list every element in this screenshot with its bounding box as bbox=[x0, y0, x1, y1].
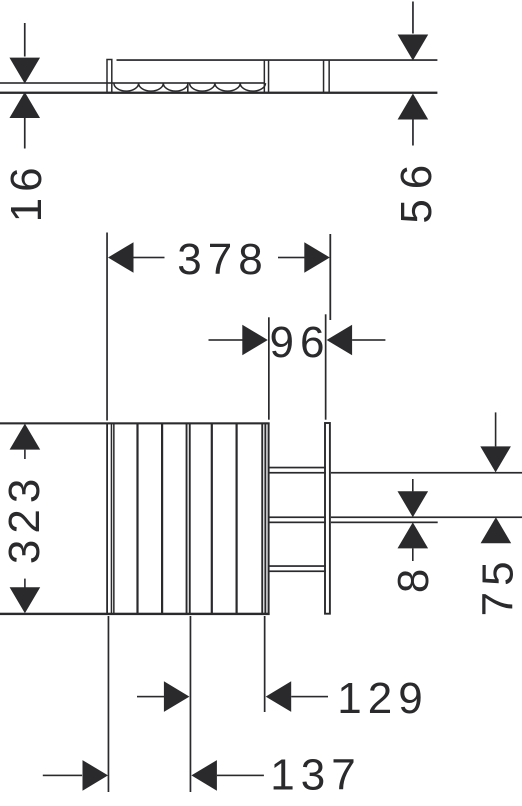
svg-text:137: 137 bbox=[270, 751, 361, 800]
top view: right bracket wall lines bbox=[323, 60, 325, 93]
dim 56 lower tail bbox=[412, 119, 414, 145]
dim 137 right arrow bbox=[191, 760, 217, 791]
front view: left edge bbox=[106, 423, 108, 615]
front view: top edge line bbox=[0, 422, 270, 424]
front view: wall bar line A bbox=[331, 472, 522, 474]
dim 75 up arrow bbox=[481, 517, 512, 543]
dim 129/137 extension line middle bbox=[190, 616, 192, 792]
dim 16 upper tail bbox=[24, 23, 26, 57]
front view: rail 1 lines bbox=[269, 467, 326, 469]
top view: inner support wall lines bbox=[264, 60, 266, 93]
dim 129 right arrow bbox=[266, 681, 292, 712]
dim 323 upper tail bbox=[24, 450, 26, 459]
front view: slat line 6 bbox=[236, 423, 238, 615]
dim 323 lower tail bbox=[24, 579, 26, 589]
dim 96 right extension line bbox=[325, 314, 327, 419]
dim 56 upper tail bbox=[412, 2, 414, 34]
dim 378 left extension line bbox=[106, 233, 108, 421]
dim 8 upper tail bbox=[412, 479, 414, 491]
dim 129 right tail bbox=[291, 696, 328, 698]
dim 129 left tail bbox=[137, 696, 164, 698]
dim 137 left tail bbox=[43, 775, 82, 777]
dim 16 lower tail bbox=[24, 118, 26, 149]
dim 56 down arrow bbox=[398, 35, 429, 61]
dim 8 up arrow bbox=[398, 522, 429, 548]
top view: left end bracket bbox=[107, 60, 112, 93]
front view: rail 2 lines bbox=[269, 516, 326, 518]
top view: center seam bbox=[187, 82, 189, 93]
svg-text:323: 323 bbox=[0, 473, 49, 564]
svg-text:56: 56 bbox=[392, 155, 441, 224]
top view: wall rail upper line bbox=[0, 82, 264, 84]
svg-text:75: 75 bbox=[474, 555, 522, 616]
front view: center slat pair bbox=[186, 423, 188, 615]
dim 96 left tail bbox=[209, 339, 243, 341]
dim 378 right arrow bbox=[304, 242, 330, 273]
dim 137 right tail bbox=[217, 775, 264, 777]
dim 129 left arrow bbox=[164, 681, 190, 712]
svg-text:96: 96 bbox=[270, 318, 331, 367]
dim 129/137 extension line left bbox=[108, 616, 110, 792]
dim 378 left tail bbox=[133, 257, 165, 259]
svg-text:378: 378 bbox=[177, 235, 268, 284]
dim 96 right tail bbox=[352, 339, 385, 341]
top view: shelf front edge line bbox=[117, 59, 438, 61]
dim 129 extension line right bbox=[264, 616, 266, 712]
dim 96 left arrow bbox=[242, 325, 267, 356]
front view: slat line 2 bbox=[136, 423, 138, 615]
front view: wall plate bbox=[325, 423, 330, 614]
front view: basket right wall bbox=[268, 423, 270, 615]
front view: right slat pair bbox=[261, 423, 263, 615]
dim 16 up arrow bbox=[9, 92, 40, 118]
front view: slat line pair 1 bbox=[111, 423, 113, 615]
dim 378 right extension line bbox=[329, 234, 331, 320]
front view: bottom edge line bbox=[0, 613, 270, 615]
dim 323 down arrow bbox=[10, 587, 41, 613]
dim 8 lower tail bbox=[412, 548, 414, 561]
top view: rib arcs left group bbox=[114, 83, 188, 91]
dim 378 right tail bbox=[278, 257, 306, 259]
svg-text:16: 16 bbox=[2, 161, 51, 222]
dim 137 left arrow bbox=[83, 760, 109, 791]
front view: wall bar line C bbox=[331, 522, 438, 524]
dim 75 upper tail bbox=[495, 412, 497, 446]
dim 75 down arrow bbox=[480, 446, 511, 472]
dim 96 left extension line bbox=[268, 317, 270, 419]
dim 8 down arrow bbox=[398, 491, 429, 517]
svg-text:8: 8 bbox=[389, 563, 438, 593]
dim 378 left arrow bbox=[108, 242, 134, 273]
front view: rail 3 lines bbox=[269, 565, 326, 567]
front view: slat line 3 bbox=[161, 423, 163, 615]
dim 323 up arrow bbox=[10, 424, 41, 450]
front view: slat line 5 bbox=[211, 423, 213, 615]
top view: rib arcs right group bbox=[190, 83, 266, 91]
dim 16 down arrow bbox=[9, 58, 40, 84]
front view: wall bar line B bbox=[331, 516, 522, 518]
svg-text:129: 129 bbox=[337, 674, 428, 723]
dim 96 right arrow bbox=[327, 325, 353, 356]
top view: bottom edge line bbox=[0, 92, 437, 94]
dim 56 up arrow bbox=[398, 94, 429, 120]
